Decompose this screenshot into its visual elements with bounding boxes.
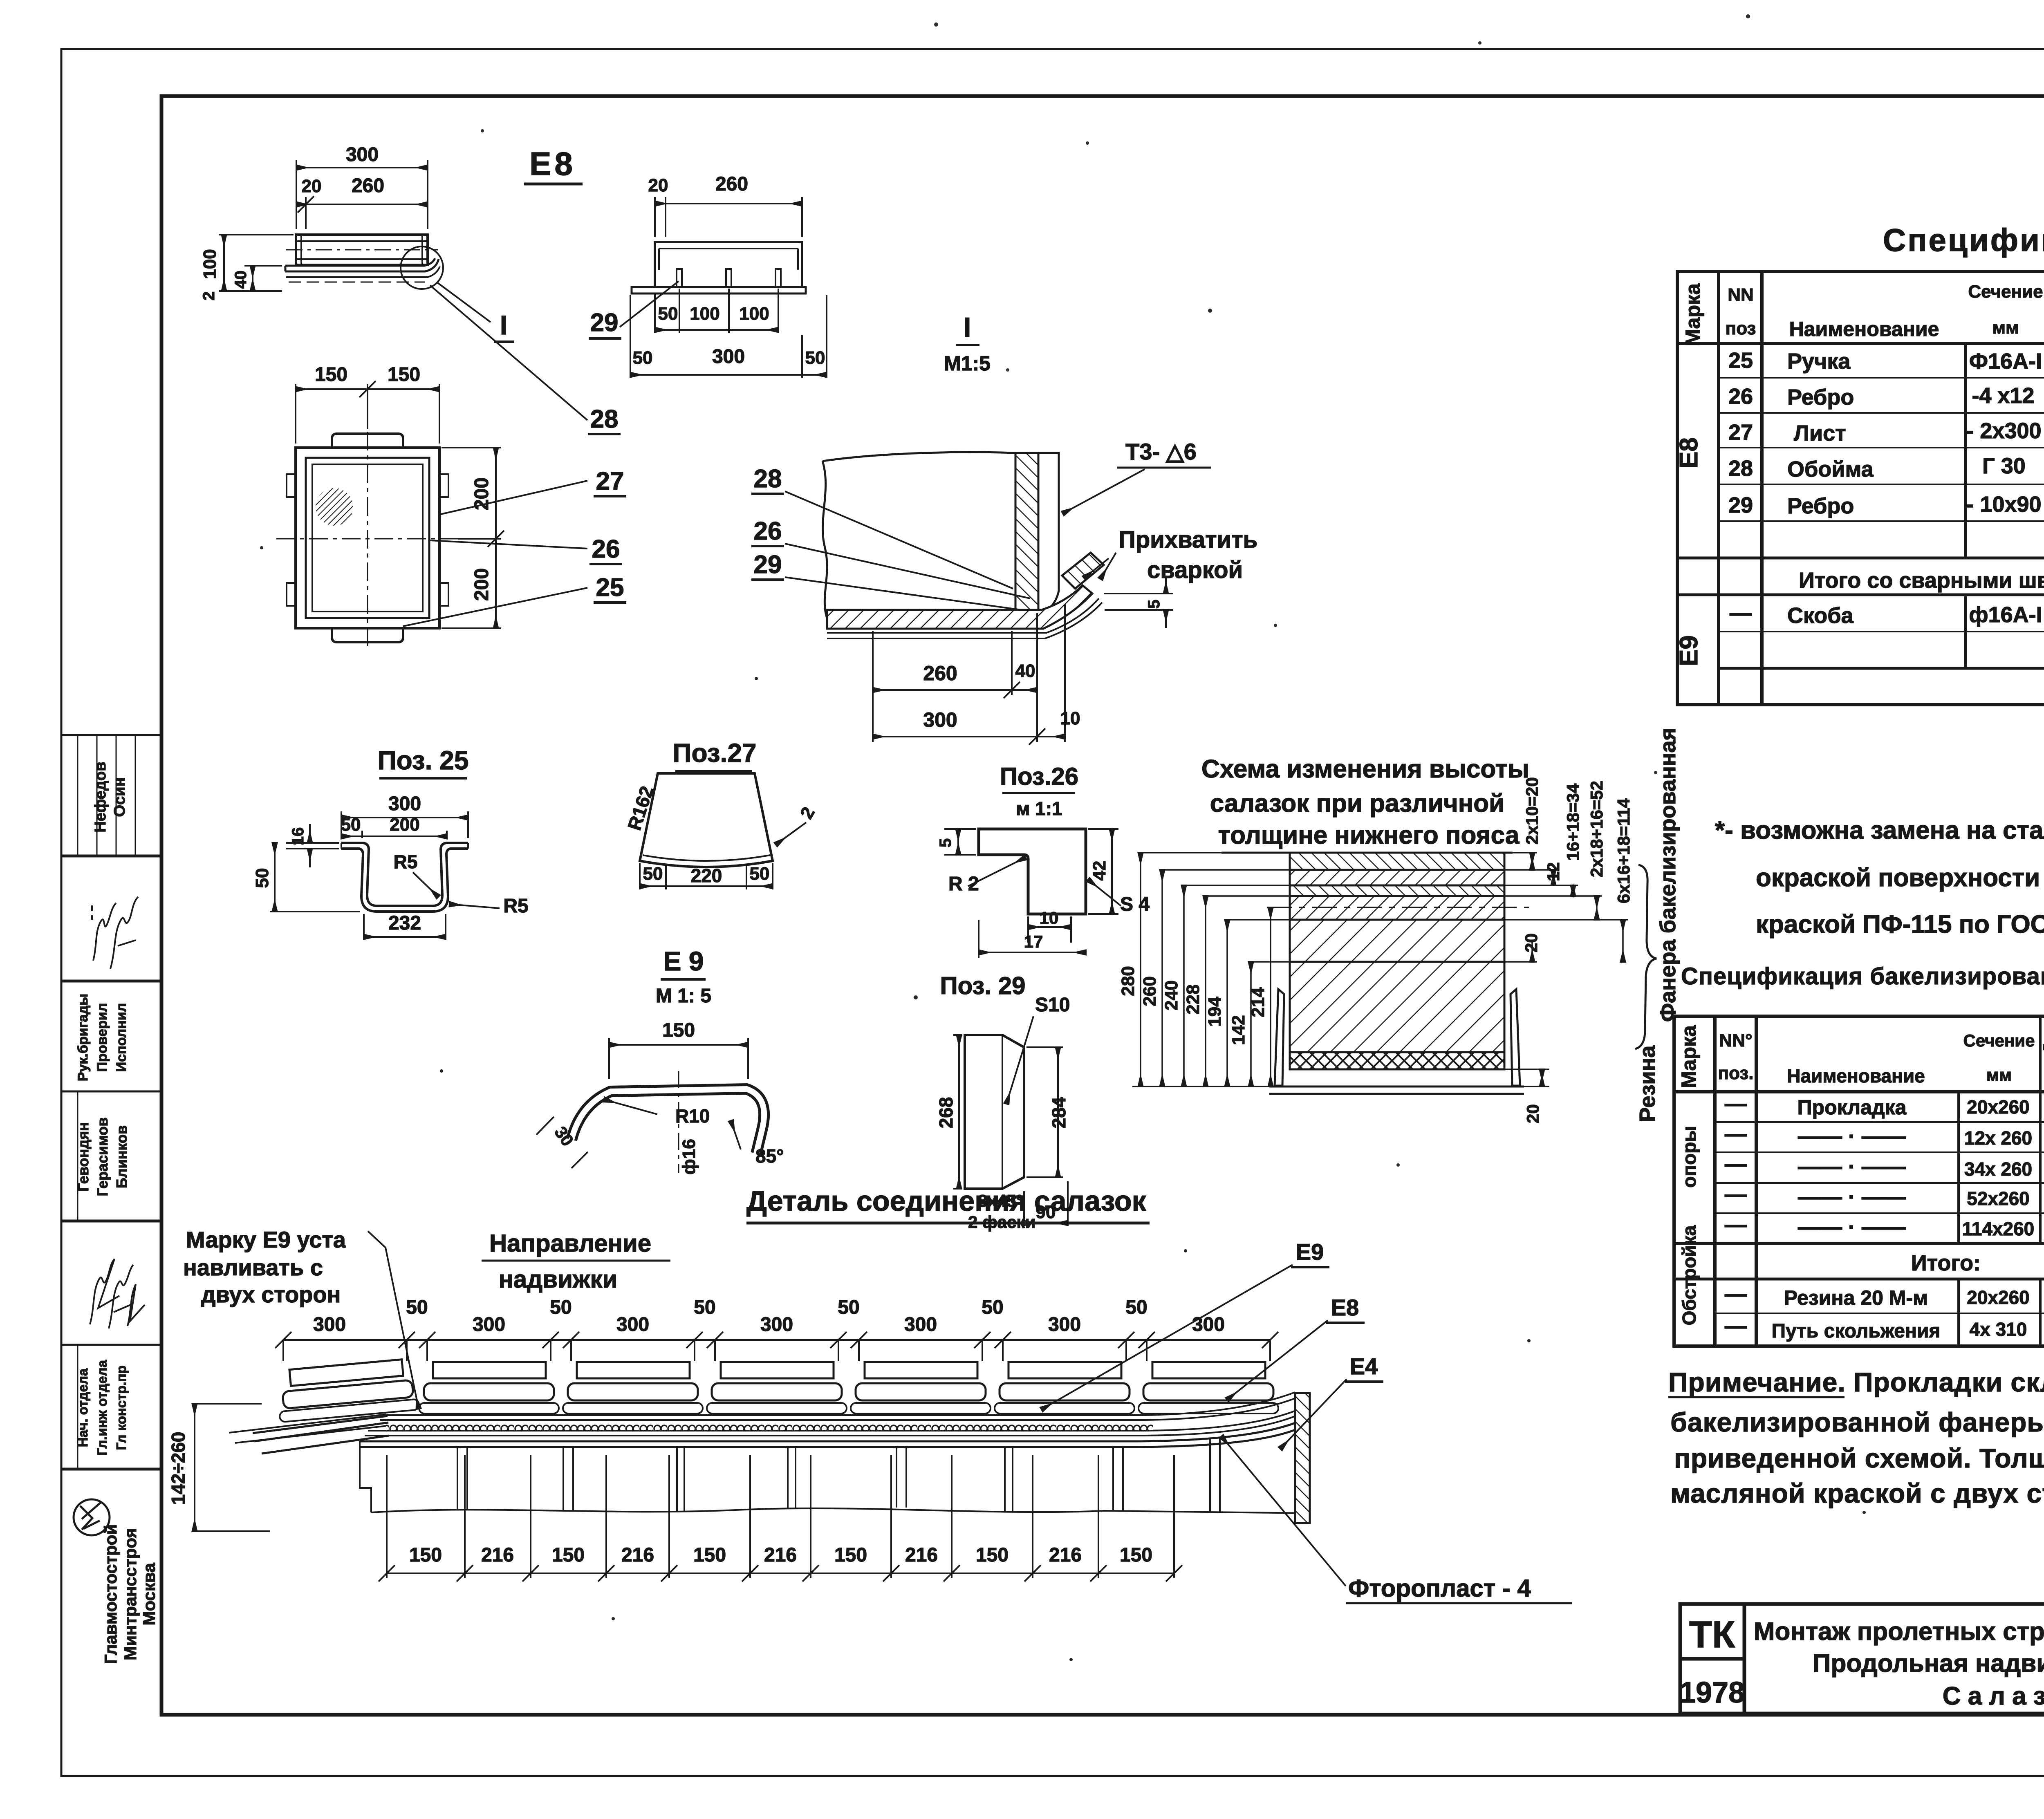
svg-text:R5: R5 bbox=[394, 851, 418, 872]
fluoroplast liner under plate bbox=[827, 598, 1102, 638]
svg-text:26: 26 bbox=[1728, 384, 1753, 409]
svg-text:40: 40 bbox=[232, 271, 250, 289]
svg-text:Ручка: Ручка bbox=[1787, 349, 1851, 374]
svg-text:- 2х300: - 2х300 bbox=[1966, 419, 2041, 443]
svg-text:Прихватить: Прихватить bbox=[1118, 526, 1257, 553]
svg-text:Москва: Москва bbox=[139, 1563, 159, 1626]
left stack dims bbox=[1132, 853, 1290, 1086]
svg-text:Скоба: Скоба bbox=[1787, 603, 1854, 628]
svg-text:150: 150 bbox=[976, 1544, 1009, 1566]
Pos.25 left dims 16 50 bbox=[270, 824, 360, 912]
svg-text:опоры: опоры bbox=[1679, 1126, 1700, 1187]
svg-text:Гевондян: Гевондян bbox=[75, 1122, 92, 1192]
callout labels 28 26 29 bbox=[754, 465, 782, 579]
svg-text:26: 26 bbox=[754, 517, 782, 545]
Pos.29 dims bbox=[953, 1035, 1068, 1226]
svg-text:Гл констр.пр: Гл констр.пр bbox=[114, 1365, 129, 1450]
svg-text:поз: поз bbox=[1726, 318, 1756, 338]
svg-text:50: 50 bbox=[838, 1297, 859, 1318]
svg-text:—: — bbox=[1725, 1091, 1747, 1116]
svg-text:приведенной схемой. Толщина: приведенной схемой. Толщина прокладок об… bbox=[1674, 1443, 2044, 1473]
svg-text:280: 280 bbox=[1118, 966, 1138, 996]
svg-text:200: 200 bbox=[471, 568, 493, 601]
svg-text:Ф16А-I: Ф16А-I bbox=[1969, 349, 2042, 374]
svg-text:50: 50 bbox=[1125, 1297, 1147, 1318]
Pos.27 plate bbox=[640, 773, 773, 867]
svg-text:142÷260: 142÷260 bbox=[168, 1432, 189, 1505]
svg-text:20: 20 bbox=[302, 176, 322, 196]
layer stack bbox=[1290, 853, 1504, 1069]
svg-text:29: 29 bbox=[590, 309, 619, 337]
svg-text:50: 50 bbox=[658, 304, 678, 324]
Pos.25 dims 300 / 50 200 bbox=[341, 811, 468, 838]
stamp signatures row 5 bbox=[90, 1259, 145, 1328]
svg-text:20: 20 bbox=[1523, 1104, 1542, 1123]
svg-text:232: 232 bbox=[388, 912, 421, 934]
Pos.26 dims bbox=[944, 829, 1118, 958]
E9 dim 150 bbox=[609, 1038, 748, 1079]
svg-text:50: 50 bbox=[633, 348, 653, 368]
chord web and stiffeners bbox=[360, 1437, 1310, 1513]
E9 labels bbox=[536, 1100, 741, 1168]
svg-text:Т3- △6: Т3- △6 bbox=[1125, 439, 1197, 464]
svg-text:50: 50 bbox=[805, 348, 825, 368]
svg-text:50: 50 bbox=[252, 868, 272, 888]
svg-text:50: 50 bbox=[550, 1297, 572, 1318]
svg-text:S10: S10 bbox=[1035, 994, 1070, 1016]
svg-text:Сечение: Сечение bbox=[1968, 282, 2043, 302]
svg-text:—: — bbox=[1725, 1282, 1747, 1306]
svg-text:2х10=20: 2х10=20 bbox=[1522, 777, 1542, 845]
svg-text:Поз. 29: Поз. 29 bbox=[940, 972, 1026, 999]
table 2 data rows bbox=[1725, 1091, 2044, 1344]
svg-text:—— · ——: —— · —— bbox=[1798, 1215, 1906, 1239]
svg-text:Исполнил: Исполнил bbox=[114, 1003, 129, 1072]
svg-text:ф16А-I: ф16А-I bbox=[1969, 603, 2042, 627]
svg-text:300: 300 bbox=[473, 1314, 505, 1335]
note block (Примечание) bbox=[1668, 1367, 2044, 1508]
svg-text:Герасимов: Герасимов bbox=[94, 1117, 111, 1196]
bridge chord top flange bbox=[360, 1441, 1136, 1447]
svg-text:284: 284 bbox=[1048, 1097, 1069, 1128]
stamp names row 4 bbox=[75, 1117, 130, 1196]
svg-text:27: 27 bbox=[596, 467, 624, 495]
svg-text:216: 216 bbox=[621, 1544, 654, 1566]
svg-text:150: 150 bbox=[315, 364, 347, 385]
svg-text:Резина: Резина bbox=[1635, 1045, 1660, 1122]
top dimension row 300/50 bbox=[283, 1340, 1270, 1361]
svg-text:NN°: NN° bbox=[1719, 1030, 1752, 1051]
dims 50 100 100 bbox=[655, 289, 778, 333]
svg-text:- 10х90: - 10х90 bbox=[1966, 492, 2041, 517]
web plate hatched bbox=[1015, 453, 1038, 610]
right dims 200 200 bbox=[442, 448, 504, 628]
svg-text:поз.: поз. bbox=[1718, 1063, 1754, 1083]
svg-text:Резина 20 М-м: Резина 20 М-м bbox=[1784, 1286, 1928, 1309]
svg-text:Марку Е9 уста: Марку Е9 уста bbox=[186, 1227, 346, 1252]
svg-text:216: 216 bbox=[764, 1544, 797, 1566]
svg-text:20х260: 20х260 bbox=[1967, 1287, 2030, 1308]
stamp org row 7 with K6 logo bbox=[101, 1524, 159, 1664]
svg-text:300: 300 bbox=[760, 1314, 793, 1335]
svg-text:150: 150 bbox=[1120, 1544, 1152, 1566]
svg-text:мм: мм bbox=[1986, 1065, 2012, 1084]
table 1 header texts bbox=[1681, 282, 2044, 346]
svg-text:Примечание. Прокладки склеива: Примечание. Прокладки склеиваются из наб… bbox=[1668, 1367, 2044, 1397]
centerlines bbox=[276, 538, 458, 540]
left height dim 142-260 bbox=[195, 1404, 270, 1531]
stamp signatures row 2 bbox=[92, 897, 138, 969]
svg-text:ф16: ф16 bbox=[679, 1139, 699, 1174]
svg-text:12х 260: 12х 260 bbox=[1964, 1127, 2032, 1149]
svg-text:50: 50 bbox=[694, 1297, 715, 1318]
svg-text:—— · ——: —— · —— bbox=[1798, 1124, 1906, 1149]
svg-text:1978: 1978 bbox=[1679, 1676, 1745, 1709]
svg-text:150: 150 bbox=[834, 1544, 867, 1566]
svg-text:50: 50 bbox=[643, 864, 663, 884]
E8 plan view bbox=[287, 434, 448, 642]
svg-text:Рук.бригады: Рук.бригады bbox=[75, 994, 91, 1081]
svg-text:Главмостострой: Главмостострой bbox=[101, 1524, 120, 1664]
channel side view (pos.28 band) bbox=[296, 235, 428, 265]
svg-text:50: 50 bbox=[341, 815, 361, 835]
svg-text:—: — bbox=[1730, 601, 1752, 625]
svg-text:Монтаж пролетных строений 45.0: Монтаж пролетных строений 45.0; 55.0м bbox=[1754, 1617, 2044, 1646]
svg-text:42: 42 bbox=[1089, 861, 1109, 881]
sled segments bbox=[276, 1358, 419, 1422]
svg-text:260: 260 bbox=[715, 173, 748, 195]
svg-text:300: 300 bbox=[616, 1314, 649, 1335]
title block main bbox=[1680, 1604, 2044, 1714]
dim 5 right bbox=[1104, 576, 1173, 628]
dimension 20 260 bbox=[296, 204, 428, 205]
svg-text:Поз.27: Поз.27 bbox=[672, 738, 756, 768]
svg-text:142: 142 bbox=[1228, 1015, 1248, 1045]
leader to label 28 bbox=[430, 285, 587, 420]
svg-text:Е 9: Е 9 bbox=[663, 946, 704, 976]
svg-text:25: 25 bbox=[596, 573, 624, 602]
svg-text:салазок при различной: салазок при различной bbox=[1210, 789, 1504, 818]
svg-text:—— · ——: —— · —— bbox=[1798, 1185, 1906, 1209]
bottom dimension row 150/216 bbox=[387, 1455, 1174, 1578]
svg-text:300: 300 bbox=[1048, 1314, 1081, 1335]
svg-text:Итого:: Итого: bbox=[1911, 1251, 1981, 1275]
svg-text:5: 5 bbox=[1145, 600, 1163, 609]
stamp roles row 3 bbox=[75, 994, 129, 1081]
svg-text:навливать с: навливать с bbox=[183, 1254, 323, 1280]
E8 side section view bbox=[296, 160, 428, 229]
svg-text:Е9: Е9 bbox=[1675, 635, 1703, 666]
brace and material labels bbox=[1635, 865, 1656, 1049]
flange line bbox=[1038, 453, 1059, 615]
svg-text:I: I bbox=[964, 312, 971, 343]
body outline (pos.28 channel) torn edges bbox=[823, 452, 1015, 618]
svg-text:100: 100 bbox=[739, 304, 769, 324]
detail circle I bbox=[401, 246, 443, 289]
svg-text:28: 28 bbox=[590, 405, 619, 433]
E9 skoba (staple) bbox=[572, 1089, 764, 1154]
svg-text:Ребро: Ребро bbox=[1787, 494, 1854, 518]
svg-text:бакелизированной фанеры в: бакелизированной фанеры в соответствии с bbox=[1670, 1407, 2044, 1437]
svg-text:двух сторон: двух сторон bbox=[201, 1281, 341, 1307]
svg-text:52х260: 52х260 bbox=[1967, 1188, 2030, 1209]
svg-text:Схема изменения высоты: Схема изменения высоты bbox=[1201, 755, 1529, 783]
svg-text:краской ПФ-115 по ГОСТ: краской ПФ-115 по ГОСТ 6465-76. bbox=[1756, 910, 2044, 939]
svg-text:Е8: Е8 bbox=[1331, 1295, 1359, 1320]
svg-text:Осин: Осин bbox=[111, 777, 128, 817]
svg-text:300: 300 bbox=[712, 346, 745, 367]
svg-text:17: 17 bbox=[1024, 932, 1043, 951]
stamp roles row 6 bbox=[75, 1360, 129, 1456]
svg-text:сваркой: сваркой bbox=[1147, 557, 1243, 583]
svg-text:Деталь соединения салазок: Деталь соединения салазок bbox=[746, 1185, 1147, 1217]
table 2 header texts bbox=[1677, 1020, 2044, 1088]
svg-text:—: — bbox=[1725, 1152, 1747, 1176]
svg-text:150: 150 bbox=[552, 1544, 585, 1566]
svg-text:300: 300 bbox=[904, 1314, 937, 1335]
svg-text:ТК: ТК bbox=[1689, 1614, 1735, 1655]
svg-text:28: 28 bbox=[754, 465, 782, 493]
svg-text:Минтрансстроя: Минтрансстроя bbox=[121, 1528, 140, 1660]
svg-text:200: 200 bbox=[390, 815, 419, 835]
svg-text:Е8: Е8 bbox=[529, 146, 576, 182]
svg-text:Обойма: Обойма bbox=[1787, 457, 1874, 482]
svg-text:300: 300 bbox=[313, 1314, 346, 1335]
svg-text:150: 150 bbox=[662, 1019, 695, 1041]
svg-text:27: 27 bbox=[1728, 420, 1753, 445]
svg-text:5: 5 bbox=[937, 838, 955, 847]
svg-text:2х18+16=52: 2х18+16=52 bbox=[1587, 781, 1606, 877]
svg-text:Прокладка: Прокладка bbox=[1797, 1096, 1907, 1119]
svg-text:Направление: Направление bbox=[489, 1230, 651, 1257]
svg-text:29: 29 bbox=[1728, 493, 1753, 517]
table 2: Спецификация фанеры bbox=[1674, 1016, 2044, 1346]
svg-text:220: 220 bbox=[691, 865, 722, 886]
svg-text:Спецификация: Спецификация bbox=[1883, 222, 2044, 258]
svg-text:I: I bbox=[500, 310, 507, 340]
svg-text:214: 214 bbox=[1248, 987, 1268, 1017]
base plate side view (pos.27) bbox=[285, 258, 440, 282]
I label with leader bbox=[437, 282, 491, 322]
svg-text:240: 240 bbox=[1161, 980, 1181, 1010]
svg-text:Сечение: Сечение bbox=[1963, 1031, 2035, 1050]
svg-text:*- возможна замена на сталь: *- возможна замена на сталь по ГОСТ 1542… bbox=[1715, 816, 2044, 845]
dimension 300 bbox=[296, 167, 428, 168]
svg-text:S 4: S 4 bbox=[1120, 894, 1150, 915]
svg-text:М 1: 5: М 1: 5 bbox=[656, 985, 711, 1007]
svg-text:Нач. отдела: Нач. отдела bbox=[75, 1368, 90, 1447]
svg-text:194: 194 bbox=[1205, 997, 1225, 1027]
stamp names row 1 bbox=[92, 762, 128, 832]
svg-text:NN: NN bbox=[1728, 285, 1754, 305]
svg-text:300: 300 bbox=[923, 708, 957, 731]
svg-text:260: 260 bbox=[1140, 976, 1160, 1006]
svg-text:150: 150 bbox=[388, 364, 420, 385]
svg-text:надвижки: надвижки bbox=[499, 1266, 618, 1293]
dims 50 300 50 bbox=[630, 295, 827, 378]
svg-text:28: 28 bbox=[1728, 456, 1753, 481]
svg-text:100: 100 bbox=[200, 249, 220, 279]
svg-text:—: — bbox=[1725, 1212, 1747, 1237]
svg-text:300: 300 bbox=[1192, 1314, 1225, 1335]
section I view (M1:5) top middle bbox=[655, 197, 802, 237]
svg-text:Е9: Е9 bbox=[1296, 1239, 1324, 1265]
svg-text:мм: мм bbox=[1992, 318, 2019, 338]
left stamp column bbox=[61, 735, 161, 1469]
scan speckles bbox=[260, 14, 2044, 1661]
svg-text:Поз.26: Поз.26 bbox=[1000, 763, 1078, 790]
Pos.25 dim 232 bbox=[364, 914, 446, 940]
svg-text:Нефедов: Нефедов bbox=[92, 762, 109, 832]
svg-text:114х260: 114х260 bbox=[1962, 1218, 2035, 1239]
svg-text:50: 50 bbox=[750, 864, 770, 884]
svg-text:26: 26 bbox=[592, 535, 620, 563]
svg-text:216: 216 bbox=[905, 1544, 938, 1566]
svg-text:300: 300 bbox=[388, 793, 421, 815]
svg-text:R5: R5 bbox=[503, 895, 528, 917]
svg-text:Фанера бакелизированная: Фанера бакелизированная bbox=[1656, 728, 1680, 1022]
svg-text:Итого со сварными швами:: Итого со сварными швами: bbox=[1799, 568, 2044, 593]
Pos.26 angle profile bbox=[979, 829, 1086, 914]
table 1 data rows bbox=[1728, 345, 2044, 702]
svg-text:Е4: Е4 bbox=[1350, 1353, 1378, 1379]
svg-text:Продольная надвижка.: Продольная надвижка. bbox=[1813, 1649, 2044, 1678]
svg-text:10: 10 bbox=[1060, 708, 1080, 728]
U channel wrap bbox=[1269, 989, 1524, 1094]
svg-text:40: 40 bbox=[1015, 661, 1035, 681]
svg-text:25: 25 bbox=[1728, 348, 1753, 373]
callout labels 28 27 26 25 bbox=[590, 405, 624, 602]
svg-text:268: 268 bbox=[935, 1097, 957, 1129]
svg-text:Е8: Е8 bbox=[1675, 437, 1703, 468]
extension lines bbox=[296, 160, 297, 229]
svg-text:Наименование: Наименование bbox=[1787, 1065, 1925, 1086]
svg-text:—: — bbox=[1725, 1182, 1747, 1207]
leaders to 27 26 25 bbox=[403, 481, 587, 626]
svg-text:50: 50 bbox=[982, 1297, 1003, 1318]
svg-text:Проверил: Проверил bbox=[94, 1003, 110, 1072]
svg-text:Спецификация бакелизированной: Спецификация бакелизированной фанеры,рез… bbox=[1681, 963, 2044, 990]
svg-text:4х 310: 4х 310 bbox=[1970, 1319, 2027, 1340]
svg-text:—— · ——: —— · —— bbox=[1798, 1154, 1906, 1179]
svg-text:Марка: Марка bbox=[1681, 283, 1704, 346]
E4 upturn end bbox=[1128, 1422, 1299, 1447]
svg-text:20: 20 bbox=[1522, 933, 1541, 952]
right stack dims bbox=[1504, 853, 1628, 1086]
svg-text:Путь скольжения: Путь скольжения bbox=[1772, 1320, 1941, 1342]
svg-text:—: — bbox=[1725, 1122, 1747, 1146]
continuous rails bbox=[365, 1392, 1298, 1436]
footnote below table 1 bbox=[1715, 816, 2044, 939]
svg-text:216: 216 bbox=[1049, 1544, 1082, 1566]
Pos.25 channel profile bbox=[341, 843, 468, 912]
approach ramp under first segment bbox=[253, 1416, 389, 1454]
svg-text:R 2: R 2 bbox=[948, 873, 979, 895]
svg-text:С а л а з к и: С а л а з к и bbox=[1943, 1682, 2044, 1710]
svg-text:Гл.инж отдела: Гл.инж отдела bbox=[94, 1360, 110, 1456]
weld patch bbox=[316, 488, 353, 526]
svg-text:Лист: Лист bbox=[1794, 421, 1846, 446]
rail plate under channel bbox=[632, 287, 806, 293]
svg-text:—: — bbox=[1725, 1314, 1747, 1338]
svg-text:260: 260 bbox=[352, 175, 384, 197]
svg-text:М1:5: М1:5 bbox=[944, 352, 991, 375]
svg-text:Наименование: Наименование bbox=[1789, 318, 1939, 341]
svg-text:Блинков: Блинков bbox=[113, 1125, 130, 1188]
rubber dotted band bbox=[386, 1421, 1153, 1430]
svg-text:Марка: Марка bbox=[1677, 1025, 1700, 1088]
table 1: Спецификация металла bbox=[1677, 271, 2044, 705]
E8 plan view dims 150 150 bbox=[296, 381, 439, 444]
svg-text:Поз. 25: Поз. 25 bbox=[378, 746, 469, 775]
left dims 100 40 2 bbox=[219, 235, 294, 291]
svg-text:окраской поверхности атмосф: окраской поверхности атмосферно стойкой bbox=[1756, 864, 2044, 892]
svg-text:228: 228 bbox=[1183, 984, 1203, 1014]
svg-text:150: 150 bbox=[409, 1544, 442, 1566]
Pos.29 plate bbox=[965, 1035, 1024, 1189]
svg-text:300: 300 bbox=[346, 144, 379, 166]
svg-text:100: 100 bbox=[690, 304, 719, 324]
K6 emblem bbox=[74, 1499, 110, 1535]
svg-text:R10: R10 bbox=[675, 1105, 710, 1127]
svg-text:масляной краской с двух: масляной краской с двух старон прокладки bbox=[1670, 1478, 2044, 1508]
svg-text:Фторопласт - 4: Фторопласт - 4 bbox=[1348, 1575, 1531, 1602]
svg-text:6х16+18=114: 6х16+18=114 bbox=[1614, 798, 1633, 903]
svg-text:м 1:1: м 1:1 bbox=[1016, 798, 1062, 819]
centerline bbox=[286, 249, 438, 251]
bottom plate (pos.29) hatched with bend bbox=[827, 585, 1092, 629]
svg-text:50: 50 bbox=[406, 1297, 428, 1318]
svg-text:Обстройка: Обстройка bbox=[1679, 1225, 1700, 1325]
svg-text:34х 260: 34х 260 bbox=[1964, 1158, 2032, 1180]
svg-text:16+18=34: 16+18=34 bbox=[1563, 783, 1582, 861]
svg-text:-4 х12: -4 х12 bbox=[1972, 383, 2034, 408]
svg-text:Ребро: Ребро bbox=[1787, 385, 1854, 410]
svg-text:216: 216 bbox=[481, 1544, 514, 1566]
svg-text:12: 12 bbox=[1544, 862, 1563, 881]
dims 260 40 / 300 10 bbox=[873, 604, 1065, 745]
svg-text:10: 10 bbox=[1040, 908, 1059, 927]
svg-text:Г 30: Г 30 bbox=[1982, 454, 2026, 478]
svg-text:29: 29 bbox=[754, 551, 782, 579]
svg-text:150: 150 bbox=[693, 1544, 726, 1566]
svg-text:20х260: 20х260 bbox=[1967, 1096, 2030, 1118]
svg-text:85°: 85° bbox=[755, 1145, 784, 1167]
bent rib (pos.26) with weld bbox=[1062, 553, 1104, 589]
svg-text:толщине нижнего пояса: толщине нижнего пояса bbox=[1218, 821, 1520, 849]
Pos.27 dims 50 220 50 bbox=[640, 863, 773, 889]
svg-text:260: 260 bbox=[923, 662, 957, 685]
inverted channel (pos.28) bbox=[655, 242, 802, 287]
svg-text:16: 16 bbox=[289, 827, 307, 846]
svg-text:20: 20 bbox=[648, 175, 668, 195]
svg-text:2: 2 bbox=[200, 291, 218, 300]
